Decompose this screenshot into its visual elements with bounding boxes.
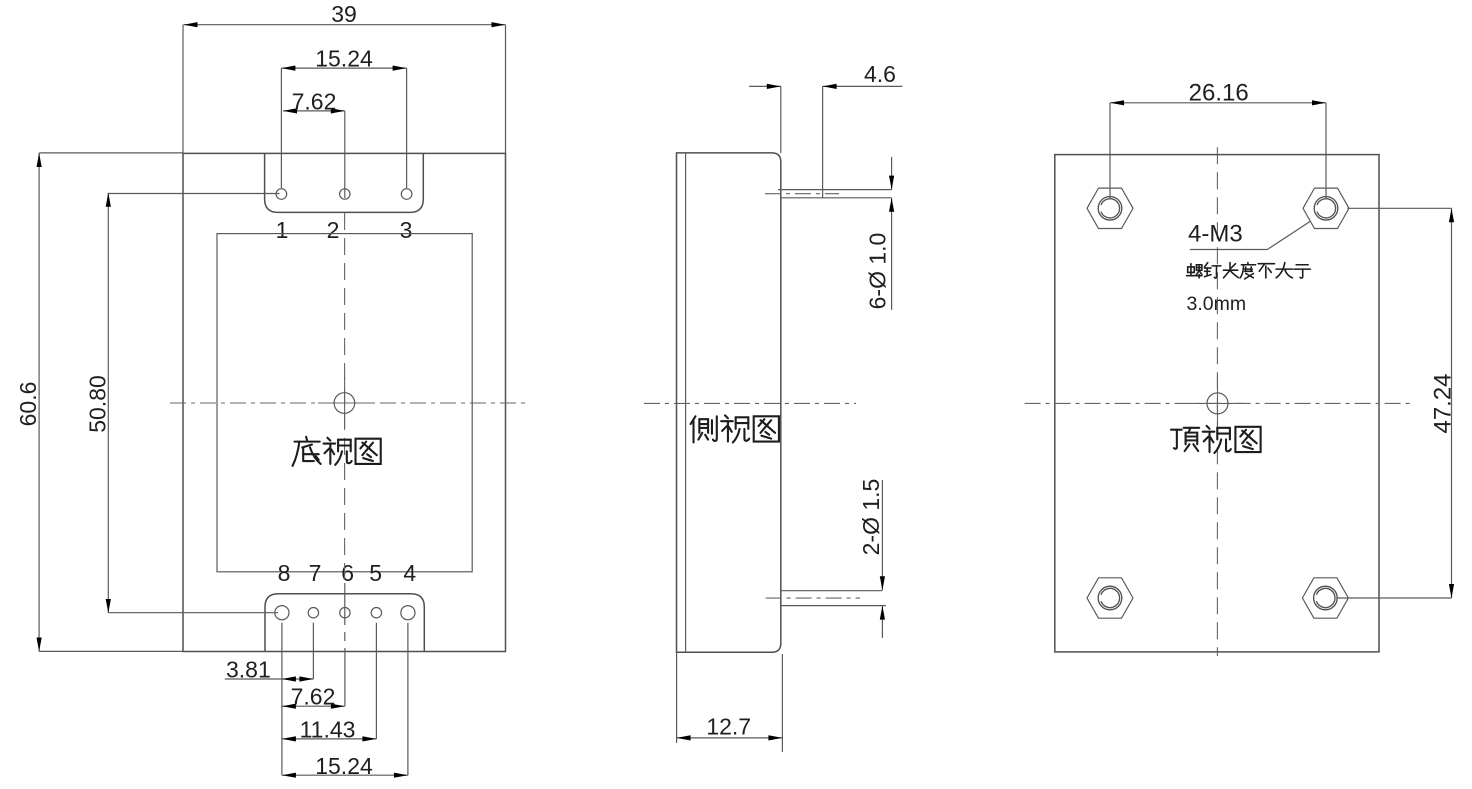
top view vertical center line: [1216, 147, 1218, 656]
pin hole 8: [275, 606, 289, 620]
pin hole 5: [371, 608, 381, 618]
bottom view outer body rectangle: [183, 153, 506, 651]
svg-text:47.24: 47.24: [1430, 373, 1457, 433]
svg-text:6-Ø 1.0: 6-Ø 1.0: [865, 233, 891, 310]
dimension 60.6: [15, 153, 183, 652]
dimension 4.6: [749, 61, 902, 198]
hex nut bottom-right: [1302, 578, 1348, 618]
dimension 2-diameter 1.5: [858, 479, 885, 638]
bottom view inner rectangle: [217, 234, 472, 572]
svg-text:4: 4: [403, 560, 416, 586]
svg-text:39: 39: [331, 1, 357, 27]
svg-text:15.24: 15.24: [315, 753, 373, 779]
svg-text:8: 8: [278, 560, 291, 586]
dimension 11.43: [282, 716, 377, 742]
svg-text:2: 2: [327, 217, 340, 243]
side view horizontal center line: [644, 402, 856, 404]
top view outer rectangle: [1055, 155, 1379, 652]
svg-text:11.43: 11.43: [300, 716, 356, 742]
svg-text:3: 3: [400, 217, 413, 243]
hex nut bottom-left: [1087, 578, 1133, 618]
hex nut top-left: [1087, 188, 1133, 228]
pin number labels 1 2 3: [276, 217, 413, 243]
pin number labels 8 7 6 5 4: [278, 560, 417, 586]
pin hole 1: [276, 189, 287, 200]
side view top pin: [765, 190, 892, 198]
svg-text:7.62: 7.62: [291, 684, 336, 710]
svg-text:60.6: 60.6: [15, 382, 41, 427]
svg-text:2-Ø 1.5: 2-Ø 1.5: [858, 479, 884, 556]
dimension 50.80: [85, 193, 280, 613]
dimension 39: [183, 1, 506, 153]
dimension 15.24 top: [281, 46, 406, 189]
svg-text:1: 1: [276, 217, 289, 243]
note 4-M3 with leader: [1188, 221, 1310, 250]
dimension 47.24: [1336, 208, 1456, 598]
bottom view top pin plate: [265, 153, 424, 212]
top view horizontal center line: [1025, 377, 1410, 430]
svg-text:50.80: 50.80: [85, 375, 111, 433]
dimension 6-diameter 1.0: [865, 157, 895, 310]
svg-text:3.0mm: 3.0mm: [1187, 293, 1247, 315]
label top view 顶视图: [1171, 426, 1261, 453]
side view body outline: [677, 153, 781, 652]
note 螺钉长度不大于: [1187, 263, 1311, 279]
svg-text:5: 5: [369, 560, 382, 586]
pin hole 4: [401, 606, 415, 620]
dimension 7.62 bottom: [282, 684, 345, 710]
hex nut top-right: [1303, 188, 1349, 228]
svg-text:3.81: 3.81: [226, 657, 271, 683]
dimension 7.62 top: [283, 88, 345, 198]
svg-text:26.16: 26.16: [1189, 80, 1249, 107]
dimension 26.16: [1110, 80, 1326, 199]
pin hole 7: [308, 608, 318, 618]
svg-text:12.7: 12.7: [706, 714, 751, 740]
svg-text:7: 7: [309, 560, 322, 586]
top view center circle: [1207, 393, 1228, 414]
svg-text:15.24: 15.24: [315, 46, 373, 72]
svg-text:7.62: 7.62: [292, 88, 337, 114]
dimension 12.7: [677, 652, 783, 752]
label side view 侧视图: [691, 415, 779, 442]
bottom view vertical center line: [344, 213, 346, 580]
svg-text:4-M3: 4-M3: [1188, 221, 1243, 248]
svg-text:4.6: 4.6: [864, 61, 896, 87]
pin extension lines below bottom plate: [282, 583, 408, 775]
side view inner edge line: [685, 153, 687, 652]
bottom view horizontal center line: [170, 402, 528, 404]
label bottom view 底视图: [293, 437, 381, 466]
pin hole 6: [340, 608, 350, 618]
svg-text:6: 6: [341, 560, 354, 586]
dimension 3.81: [225, 657, 314, 683]
bottom view center circle: [334, 393, 355, 414]
side view bottom pin: [766, 591, 886, 606]
pin hole 3: [401, 189, 412, 200]
pin hole 2: [340, 189, 350, 199]
dimension 15.24 bottom: [282, 753, 408, 779]
bottom view bottom pin plate: [265, 594, 424, 652]
